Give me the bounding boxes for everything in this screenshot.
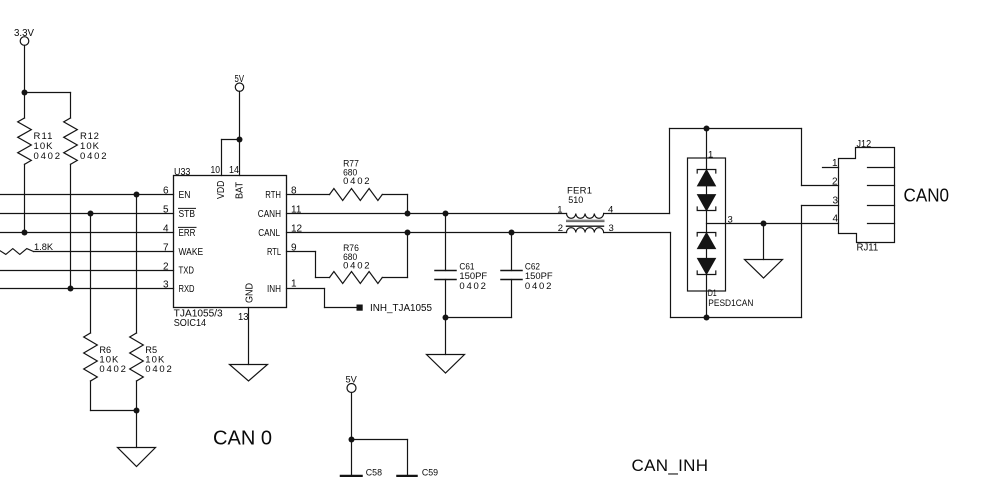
D1 pin3 tap wire (707, 223, 726, 225)
ground (R5/R6) (118, 448, 156, 467)
junction R11/ERR (22, 230, 28, 236)
power 3.3V symbol (20, 37, 29, 93)
svg-text:4: 4 (163, 224, 169, 235)
junction 5V/C58/C59 (349, 437, 355, 443)
resistor R5 (130, 195, 144, 411)
ic U33 TJA1055 body (174, 176, 287, 308)
svg-text:0402: 0402 (343, 176, 370, 187)
ground (C61/C62) (427, 355, 465, 374)
junction R5/R6 bottom (134, 408, 140, 414)
svg-text:INH: INH (267, 284, 281, 295)
svg-text:13: 13 (238, 312, 249, 323)
svg-text:RTL: RTL (267, 247, 281, 258)
svg-text:TXD: TXD (179, 266, 195, 277)
svg-text:CANL: CANL (258, 228, 280, 239)
D1 TVS pair bottom: cathode bar (697, 233, 716, 237)
svg-text:0402: 0402 (145, 364, 172, 375)
wire R6 bottom to R5 bottom (91, 410, 137, 412)
svg-text:RTH: RTH (265, 190, 281, 201)
svg-text:1: 1 (832, 158, 838, 169)
U33 part labels (174, 309, 223, 330)
svg-text:0402: 0402 (343, 261, 370, 272)
FER1 labels (567, 186, 592, 207)
svg-text:0402: 0402 (99, 364, 126, 375)
D1 TVS pair top: up diode (698, 170, 716, 186)
connector J12 outline (839, 148, 895, 243)
STB overline (179, 207, 196, 209)
svg-text:1: 1 (708, 150, 713, 161)
wire INH pin 1 jog (287, 289, 357, 308)
R77 value labels (343, 159, 370, 188)
R5 value labels (145, 345, 172, 375)
C61 value labels (459, 261, 487, 292)
power 5V symbol (bottom) (347, 384, 356, 475)
svg-text:CAN0: CAN0 (904, 186, 950, 206)
svg-text:WAKE: WAKE (179, 247, 204, 258)
svg-text:2: 2 (558, 223, 563, 234)
D1 TVS pair top: down diode (698, 195, 716, 211)
R76 value labels (343, 243, 370, 272)
wire to ground (D1 pin3) (763, 224, 765, 260)
D1 TVS pair top: anode bar (697, 207, 716, 211)
junction C61/CANH (443, 211, 449, 217)
junction 3.3V/R11/R12 (22, 90, 28, 96)
wire C61 to C62 bottoms (446, 317, 512, 319)
svg-text:CANH: CANH (258, 209, 281, 220)
svg-text:3: 3 (832, 196, 838, 207)
U33 left pin labels (179, 190, 204, 295)
svg-text:RXD: RXD (179, 284, 195, 295)
D1 bottom stem (706, 275, 708, 318)
D1 TVS pair bottom: up diode (698, 233, 716, 249)
svg-text:VDD: VDD (216, 181, 227, 200)
svg-text:0402: 0402 (80, 151, 107, 162)
wire to ground (C61/C62) (445, 318, 447, 355)
wire TXD net (0, 270, 174, 272)
U33 top pin labels VDD BAT (216, 181, 246, 200)
capacitor C62 (501, 233, 522, 318)
resistor R11 (18, 93, 32, 233)
svg-text:4: 4 (832, 214, 838, 225)
U33 right pin numbers (291, 186, 303, 290)
svg-text:3.3V: 3.3V (14, 28, 34, 39)
svg-text:5: 5 (163, 205, 169, 216)
svg-text:2: 2 (163, 262, 169, 273)
wire CANL ferrite to loop (604, 206, 839, 318)
R12 value labels (80, 131, 107, 162)
svg-text:GND: GND (244, 283, 255, 303)
junction 5V/VDD/BAT (237, 137, 243, 143)
svg-text:6: 6 (163, 186, 169, 197)
svg-text:C59: C59 (422, 468, 438, 477)
svg-text:0402: 0402 (525, 281, 552, 292)
U33 left pin numbers (163, 186, 169, 291)
capacitor C61 (435, 214, 456, 318)
svg-text:SOIC14: SOIC14 (174, 318, 207, 329)
ferrite FER1 winding 2-3 (567, 228, 604, 233)
ground (D1 pin3) (745, 260, 783, 279)
wire WAKE net (34, 251, 174, 253)
resistor R12 (64, 93, 78, 289)
svg-text:2: 2 (832, 177, 838, 188)
D1 TVS pair top: cathode bar (697, 170, 716, 174)
svg-text:INH_TJA1055: INH_TJA1055 (370, 303, 432, 314)
svg-text:10: 10 (211, 165, 221, 176)
wire GND pin 13 (248, 308, 250, 365)
wire RTL pin 9 jog (287, 252, 330, 278)
resistor R76 (330, 233, 408, 284)
svg-text:CAN_INH: CAN_INH (632, 456, 709, 475)
svg-text:0402: 0402 (459, 281, 486, 292)
ferrite FER1 winding 1-4 (567, 214, 604, 219)
junction CANL/D1 pin2 (704, 315, 710, 321)
svg-text:1: 1 (291, 279, 297, 290)
D1 TVS pair top: mid link (706, 186, 708, 195)
C62 value labels (525, 261, 553, 292)
junction R12/RXD (68, 286, 74, 292)
wire ERR net (0, 232, 174, 234)
ferrite FER1 core lines (567, 220, 605, 226)
junction R76/CANL (405, 230, 411, 236)
wire RXD net (0, 288, 174, 290)
connector J12 contacts (868, 168, 895, 224)
junction C61 bottom (443, 315, 449, 321)
D1 TVS pair bottom: mid link (706, 249, 708, 259)
svg-text:C58: C58 (366, 468, 382, 477)
net label square INH_TJA1055 (357, 305, 363, 311)
ERR overline (179, 226, 197, 228)
svg-text:1: 1 (557, 204, 562, 215)
svg-text:J12: J12 (857, 139, 872, 150)
wire CANH ferrite to loop (604, 129, 839, 214)
svg-text:PESD1CAN: PESD1CAN (708, 298, 753, 309)
svg-text:BAT: BAT (235, 182, 246, 199)
svg-text:5V: 5V (235, 74, 245, 85)
svg-text:EN: EN (179, 190, 191, 201)
wire VDD jog (222, 140, 240, 176)
D1 TVS pair bottom: down diode (698, 259, 716, 275)
junction R5/EN (134, 192, 140, 198)
FER1 pin numbers (557, 204, 614, 234)
D1 stem to mid tap (706, 211, 708, 233)
junction CANH/D1 pin1 (704, 126, 710, 132)
connector pin numbers (832, 158, 839, 225)
svg-text:CAN 0: CAN 0 (213, 427, 272, 450)
D1 TVS pair bottom: anode bar (697, 271, 716, 275)
wire 3.3V rail to R12 (25, 92, 71, 94)
junction R77/CANH (405, 211, 411, 217)
svg-text:7: 7 (163, 243, 169, 254)
svg-text:ERR: ERR (179, 228, 196, 239)
R11 value labels (34, 131, 61, 162)
capacitor C58 (top plate) (341, 475, 362, 477)
junction C62/CANL (509, 230, 515, 236)
svg-text:14: 14 (229, 165, 239, 176)
wire STB net (0, 213, 174, 215)
svg-text:STB: STB (179, 209, 196, 220)
svg-text:5V: 5V (346, 375, 358, 386)
wire to ground (R5/R6) (136, 411, 138, 448)
ground (U33 pin13) (230, 365, 268, 382)
U33 top pin numbers 10 14 (211, 165, 240, 176)
wire D1 pin3 to connector pin4 (726, 223, 839, 225)
svg-text:0402: 0402 (34, 151, 61, 162)
resistor R6 (84, 214, 98, 411)
power 5V symbol (top) (235, 83, 243, 176)
wire EN net (0, 194, 174, 196)
svg-text:RJ11: RJ11 (857, 243, 879, 254)
junction pin3/ground (761, 221, 767, 227)
D1 pin1 stem (706, 129, 708, 170)
junction R6/STB (88, 211, 94, 217)
resistor R77 (330, 189, 408, 214)
U33 right pin labels (258, 190, 282, 295)
wire CANL net (pin 12 to ferrite) (287, 232, 567, 234)
svg-text:U33: U33 (174, 167, 191, 178)
capacitor C59 (top plate) (398, 475, 417, 477)
svg-text:3: 3 (163, 280, 169, 291)
R6 value labels (99, 345, 126, 375)
wire CANH net (pin 11 to ferrite) (287, 213, 567, 215)
wire RTH pin 8 (287, 194, 330, 196)
resistor 1.8K (edge) (0, 249, 34, 255)
svg-text:510: 510 (568, 195, 583, 206)
wire 5V to C59 (352, 440, 408, 475)
connector pin1 stub (823, 167, 839, 169)
diode array D1 PESD1CAN box (688, 158, 726, 291)
